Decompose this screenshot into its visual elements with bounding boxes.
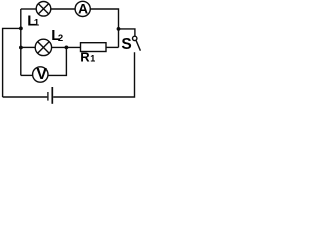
svg-text:2: 2 xyxy=(58,33,63,44)
battery short plate xyxy=(47,92,49,101)
wire top-left horizontal to lamp L1 xyxy=(21,8,37,10)
wire R1 to right vertical xyxy=(106,46,119,48)
voltmeter V xyxy=(33,67,48,82)
svg-text:R: R xyxy=(80,50,90,65)
svg-text:1: 1 xyxy=(34,18,40,29)
ammeter U A xyxy=(75,1,90,16)
wire middle row to lamp L2 xyxy=(21,46,35,48)
lamp L2 xyxy=(35,39,51,55)
svg-text:S: S xyxy=(121,36,131,53)
battery long plate xyxy=(51,87,53,104)
node junction dot middle xyxy=(65,46,69,50)
wire L1 to ammeter xyxy=(51,8,75,10)
resistor R1 xyxy=(81,43,107,52)
wire branch to outer left xyxy=(3,28,21,97)
label A xyxy=(78,1,88,17)
svg-text:V: V xyxy=(36,66,47,83)
label L1 xyxy=(27,12,40,29)
lamp L1 xyxy=(36,2,51,17)
node junction dot left upper xyxy=(19,27,23,31)
wire L2 to node xyxy=(52,46,81,48)
wire V loop right vertical xyxy=(48,47,67,75)
wire right vertical below switch xyxy=(53,52,134,97)
svg-text:A: A xyxy=(78,1,88,17)
label R1 xyxy=(80,50,95,65)
wire left inner vertical xyxy=(20,9,22,75)
wire ammeter to top-right corner xyxy=(90,9,118,47)
node junction dot right xyxy=(117,27,121,31)
switch S pivot circle xyxy=(133,36,137,40)
wire V to left corner xyxy=(21,74,33,76)
label L2 xyxy=(51,27,63,44)
wire switch branch xyxy=(119,29,135,36)
label V xyxy=(36,66,47,83)
switch S blade xyxy=(136,41,140,51)
wire bottom-left to battery xyxy=(3,96,48,98)
svg-text:1: 1 xyxy=(90,54,95,64)
node junction dot left middle xyxy=(19,46,23,50)
label S xyxy=(121,36,131,53)
